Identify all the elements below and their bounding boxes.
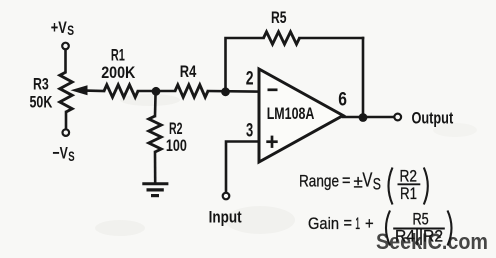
svg-text:SeekIC.com: SeekIC.com [376,229,488,254]
svg-text:200K: 200K [101,63,136,82]
svg-text:100: 100 [166,136,187,155]
svg-text:S: S [68,148,74,164]
svg-text:3: 3 [246,121,253,142]
svg-text:50K: 50K [30,93,53,112]
svg-text:Output: Output [412,109,454,128]
svg-text:2: 2 [246,68,254,89]
svg-text:R3: R3 [33,75,49,94]
svg-text:LM108A: LM108A [267,104,315,123]
svg-text:=: = [344,214,353,233]
svg-text:Input: Input [209,207,242,226]
svg-text:R1: R1 [400,184,417,203]
svg-text:R1: R1 [111,46,125,65]
svg-text:R5: R5 [271,8,287,27]
svg-text:Gain: Gain [308,214,339,233]
svg-text:S: S [67,22,74,38]
svg-text:6: 6 [338,90,347,111]
svg-text:R2: R2 [400,167,418,186]
svg-text:V: V [362,169,372,192]
svg-text:−V: −V [53,144,69,163]
svg-text:Range: Range [299,172,339,191]
svg-text:1: 1 [355,214,360,233]
svg-text:R5: R5 [413,209,429,228]
svg-text:+V: +V [51,18,67,37]
svg-text:R4: R4 [180,62,197,81]
svg-text:=: = [342,171,351,190]
svg-text:+: + [365,214,374,233]
svg-text:S: S [373,176,381,194]
